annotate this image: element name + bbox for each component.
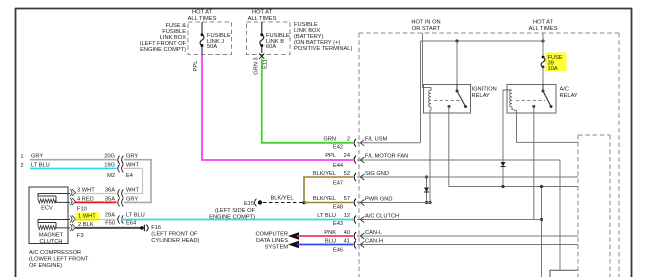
junction dot ignition switch feed [455, 39, 458, 42]
mesh row F/L USM [357, 142, 421, 144]
svg-text:F50: F50 [105, 221, 115, 227]
svg-text:57: 57 [344, 196, 350, 202]
ECM row LT BLU 12 E43 A/C CLUTCH [317, 213, 399, 227]
svg-text:(LEFT FRONT OF: (LEFT FRONT OF [151, 232, 198, 238]
svg-text:E43: E43 [333, 221, 343, 227]
wire F/L MOTOR FAN down branch [559, 160, 561, 271]
ECM row BLK/YEL 52 E47 SIG GND [313, 171, 389, 187]
wire 4 RED row [75, 196, 117, 202]
svg-text:RELAY: RELAY [472, 93, 490, 99]
svg-text:ALL TIMES: ALL TIMES [188, 16, 217, 22]
fusible link B 60A symbol [260, 22, 264, 53]
svg-text:40: 40 [344, 230, 350, 236]
highlight FUSE 39 10A (yellow) [546, 53, 567, 72]
ignition relay internal dashed link [434, 100, 461, 102]
ECM row PPL 24 E44 F/L MOTOR FAN [325, 153, 408, 169]
svg-text:F/L MOTOR FAN: F/L MOTOR FAN [365, 154, 408, 160]
ECM row BLU 41 E46 CAN-H [325, 238, 383, 253]
inline connector glyphs pins 3,4,1,2 [70, 189, 76, 231]
svg-text:F/L USM: F/L USM [365, 137, 387, 143]
svg-text:(LEFT SIDE OF: (LEFT SIDE OF [215, 208, 256, 214]
label A/C COMPRESSOR (LOWER LEFT FRONT OF ENGINE) [29, 250, 89, 269]
svg-text:2: 2 [347, 136, 350, 142]
svg-text:2: 2 [20, 163, 23, 169]
label HOT AT ALL TIMES (left) [188, 10, 217, 23]
wire ignition coil low [430, 107, 431, 203]
ignition relay coil [429, 88, 431, 108]
diode (ignition coil) [424, 188, 429, 193]
svg-text:RELAY: RELAY [560, 93, 578, 99]
connector E11 X symbol on green wire [259, 54, 264, 59]
ECM row PNK 40 CAN-L [324, 230, 382, 240]
svg-text:CAN-H: CAN-H [365, 238, 383, 244]
magnet clutch coil [38, 223, 64, 245]
label FUSE & FUSIBLE LINK BOX (LEFT FRONT OF ENGINE COMPT) [140, 23, 187, 53]
svg-text:24: 24 [344, 153, 350, 159]
wire a/c coil low with jog [502, 90, 504, 187]
svg-text:29A: 29A [105, 213, 115, 219]
svg-text:BLK/YEL: BLK/YEL [313, 196, 336, 202]
fuse 39 wire from top [542, 33, 544, 57]
svg-text:36A: 36A [105, 188, 115, 194]
CPU dashed box [578, 135, 610, 277]
wire ignition relay switch common [456, 41, 458, 85]
diode (a/c coil) [501, 162, 506, 167]
svg-text:BLK/YEL: BLK/YEL [313, 171, 336, 177]
svg-text:ALL TIMES: ALL TIMES [248, 16, 277, 22]
svg-text:A/C COMPRESSOR: A/C COMPRESSOR [29, 250, 81, 256]
mesh row F/L MOTOR FAN [357, 159, 560, 161]
connector M2 / E4 [107, 156, 133, 179]
junction dot on PWR GND (425) [425, 201, 428, 204]
svg-text:SIG GND: SIG GND [365, 171, 389, 177]
svg-text:GRN 3: GRN 3 [254, 57, 260, 74]
fuse &amp; fusible link box F1 (dashed) [188, 22, 232, 55]
svg-text:ECV: ECV [41, 206, 53, 212]
svg-text:3 WHT: 3 WHT [77, 188, 95, 194]
mesh row A/C CLUTCH [357, 219, 542, 221]
svg-text:SYSTEM: SYSTEM [265, 245, 289, 251]
svg-text:1 WHT: 1 WHT [78, 214, 96, 220]
ignition relay box [424, 85, 471, 114]
ECM row BLK/YEL 57 E48 PWR GND [313, 196, 393, 211]
svg-text:ENGINE COMPT): ENGINE COMPT) [209, 215, 255, 221]
svg-text:E47: E47 [333, 180, 343, 186]
label A/C RELAY [560, 87, 578, 100]
svg-text:HOT AT: HOT AT [252, 10, 273, 16]
arrow to computer data lines (CAN-L) [288, 232, 299, 240]
fuse 39 symbol [541, 56, 545, 85]
svg-text:E44: E44 [333, 163, 343, 169]
ECV pin 4 lead [56, 196, 70, 202]
IPDM big dashed box [359, 33, 619, 277]
bus HOT wires horizontal [421, 40, 544, 42]
node 1 GRY stub row [20, 154, 138, 161]
svg-text:HOT IN ON: HOT IN ON [411, 20, 440, 26]
junction dot fuse feed [541, 39, 544, 42]
svg-text:PPL: PPL [193, 61, 199, 72]
svg-text:GRY: GRY [31, 154, 43, 160]
label HOT AT ALL TIMES (second) [248, 10, 277, 23]
svg-text:10A: 10A [548, 66, 558, 72]
label FUSE 39 10A [548, 55, 563, 72]
svg-text:IGNITION: IGNITION [472, 87, 497, 93]
svg-text:E42: E42 [333, 145, 343, 151]
svg-text:E46: E46 [333, 248, 343, 254]
wire relay aux row to CPU [449, 186, 578, 188]
label HOT AT ALL TIMES (right) [529, 20, 558, 33]
junction dot a/c coil low on aux row [501, 185, 504, 188]
junction dot coil low on PWR GND [428, 201, 431, 204]
ECV pin 3 lead [38, 194, 70, 197]
svg-text:HOT AT: HOT AT [192, 10, 213, 16]
clutch pin 1 lead [38, 220, 70, 223]
svg-text:PWR GND: PWR GND [365, 196, 393, 202]
svg-text:OF ENGINE): OF ENGINE) [29, 263, 62, 269]
svg-text:(LOWER LEFT FRONT: (LOWER LEFT FRONT [29, 257, 89, 263]
svg-text:35A: 35A [105, 196, 115, 202]
wire E15 dashed BLK/YEL [263, 202, 302, 204]
a/c relay switch [532, 85, 552, 109]
svg-text:PNK: PNK [324, 230, 336, 236]
arrow to computer data lines (CAN-H) [288, 241, 299, 249]
mesh row CAN-L [357, 235, 578, 237]
junction dot on SIG GND [426, 177, 428, 203]
svg-text:12: 12 [344, 213, 350, 219]
svg-text:F3: F3 [77, 233, 84, 239]
svg-text:CYLINDER HEAD): CYLINDER HEAD) [151, 238, 199, 244]
svg-text:POSITIVE TERMINAL): POSITIVE TERMINAL) [294, 46, 352, 52]
svg-text:COMPUTER: COMPUTER [255, 232, 288, 238]
wire LT BLU from F50 to ECM pin 12 [121, 219, 353, 221]
svg-text:ENGINE COMPT): ENGINE COMPT) [140, 47, 186, 53]
svg-text:E4: E4 [126, 173, 133, 179]
svg-text:LT BLU: LT BLU [317, 213, 336, 219]
svg-text:BLK/YEL: BLK/YEL [270, 196, 293, 202]
wire BLU CAN-H [297, 244, 353, 246]
svg-text:E64: E64 [126, 221, 136, 227]
label FUSIBLE LINK B 60A [266, 33, 290, 50]
svg-text:A/C: A/C [560, 87, 569, 93]
a/c relay internal dashed link [516, 100, 545, 102]
junction dot BLK/YEL [302, 201, 306, 205]
svg-text:52: 52 [344, 171, 350, 177]
junction dot on A/C CLUTCH row [540, 218, 543, 221]
svg-text:PPL: PPL [325, 153, 336, 159]
svg-text:19G: 19G [104, 163, 115, 169]
mesh row SIG GND [357, 176, 578, 178]
connector E15 [244, 199, 262, 207]
ECV coil [38, 196, 56, 212]
ignition relay switch [448, 85, 468, 109]
svg-text:F10: F10 [77, 207, 87, 213]
node 2 LT BLU stub row [20, 163, 139, 170]
fusible link J 50A symbol [200, 22, 204, 55]
mesh row PWR GND [357, 202, 432, 204]
a/c compressor box [29, 187, 68, 244]
wire 3 WHT row [75, 188, 117, 194]
ECM row GRN 2 E42 F/L USM [323, 136, 387, 150]
wire WHT loop E4 to F10 [124, 168, 143, 193]
svg-text:60A: 60A [266, 44, 276, 50]
svg-text:CLUTCH: CLUTCH [39, 239, 62, 245]
svg-text:GRY: GRY [126, 196, 138, 202]
svg-text:41: 41 [344, 238, 350, 244]
label (LEFT SIDE OF ENGINE COMPT) [209, 208, 255, 221]
svg-text:MAGNET: MAGNET [39, 233, 64, 239]
svg-text:GRN: GRN [323, 136, 336, 142]
svg-text:E48: E48 [333, 205, 343, 211]
ground F16 (LEFT FRONT OF CYLINDER HEAD) [140, 225, 199, 245]
clutch pin 2 lead [56, 223, 70, 228]
label WHT / GRY (right of F10) [126, 188, 139, 203]
svg-text:E11: E11 [263, 59, 269, 69]
ECM pin arrowheads on dashed edge [360, 140, 364, 248]
svg-text:20G: 20G [104, 154, 115, 160]
wire 2 BLK row [75, 222, 141, 239]
mesh row CAN-H [357, 244, 578, 246]
wire HOT IN ON feed vertical [423, 33, 432, 88]
svg-text:M2: M2 [107, 173, 115, 179]
svg-text:ALL TIMES: ALL TIMES [529, 26, 558, 32]
svg-text:HOT AT: HOT AT [533, 20, 554, 26]
svg-text:WHT: WHT [126, 188, 139, 194]
wire GRY loop M2 to F10 [124, 160, 151, 203]
wire PPL (magenta) from fusible link J to ECM pin 24 [202, 55, 353, 161]
wire 1 WHT row [75, 213, 117, 220]
svg-text:LT BLU: LT BLU [126, 213, 145, 219]
label FUSIBLE LINK J 50A [207, 33, 231, 50]
wire GRN from fusible link B to ECM pin 2 [262, 59, 353, 143]
connector F50 / E64 [105, 215, 136, 226]
svg-text:OR START: OR START [412, 26, 441, 32]
svg-text:CAN-L: CAN-L [365, 230, 382, 236]
connector F10 [77, 189, 123, 212]
junction dot on aux row (538) [540, 185, 543, 188]
svg-text:GRY: GRY [126, 154, 138, 160]
highlight 1 WHT (yellow) [76, 213, 100, 222]
a/c relay box [507, 85, 556, 114]
svg-text:WHT: WHT [126, 163, 139, 169]
svg-text:1: 1 [20, 154, 23, 160]
label FUSIBLE LINK BOX (BATTERY) (ON BATTERY (+) POSITIVE TERMINAL) [294, 22, 352, 52]
label COMPUTER DATA LINES SYSTEM [255, 232, 288, 251]
wire BLK/YEL to SIG GND (up and right) [304, 177, 353, 203]
svg-text:50A: 50A [207, 44, 217, 50]
wire a/c relay output long vertical [533, 107, 535, 220]
wire PNK CAN-L [297, 235, 353, 237]
svg-text:DATA LINES: DATA LINES [256, 238, 288, 244]
label HOT IN ON OR START [411, 20, 440, 33]
svg-text:A/C CLUTCH: A/C CLUTCH [365, 213, 399, 219]
fusible link box F2 (dashed) [247, 22, 291, 55]
svg-text:BLU: BLU [325, 238, 336, 244]
wire relay pin down to aux row [448, 107, 450, 187]
label IGNITION RELAY [472, 87, 497, 100]
a/c relay coil [503, 90, 512, 107]
wire BLK/YEL to PWR GND (right) [304, 202, 353, 204]
svg-text:F16: F16 [151, 225, 161, 231]
svg-text:E15: E15 [244, 201, 254, 207]
bottom connector box [550, 270, 578, 277]
